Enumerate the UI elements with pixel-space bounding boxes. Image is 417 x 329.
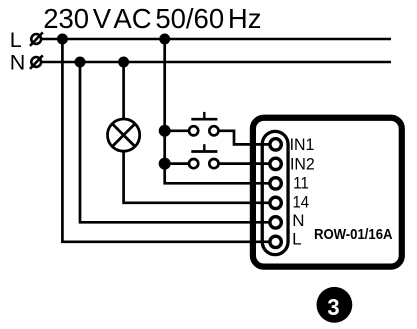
wire L rail	[41, 38, 391, 41]
svg-text:3: 3	[327, 294, 339, 320]
wire L to module terminal L	[62, 39, 275, 242]
svg-text:L: L	[292, 229, 301, 248]
terminal 14	[270, 197, 281, 208]
module ROW-01/16A body	[253, 118, 402, 267]
module terminal strip	[262, 131, 288, 254]
svg-text:11: 11	[293, 173, 309, 192]
wire N to module terminal N	[80, 62, 276, 222]
wire to button S2	[165, 162, 189, 165]
svg-text:L: L	[10, 28, 22, 52]
wire lamp to module terminal 14	[124, 151, 276, 203]
junction on L rail at x=164	[159, 34, 170, 45]
step number 3 badge	[317, 287, 353, 323]
terminal N	[270, 217, 281, 228]
push button S2	[189, 144, 218, 168]
junction button S2 feed	[159, 158, 171, 170]
wire to button S1	[165, 129, 189, 132]
wire N rail	[41, 61, 391, 64]
lamp E1	[108, 119, 140, 151]
wire button S1 to module terminal IN1	[219, 131, 276, 145]
terminal symbol N	[30, 55, 43, 69]
svg-text:IN1: IN1	[290, 135, 315, 154]
terminal L	[270, 236, 281, 247]
junction button S1 feed	[159, 125, 171, 137]
terminal symbol L	[30, 32, 43, 46]
wire L to buttons and module terminal 11	[165, 39, 276, 183]
svg-text:N: N	[10, 51, 26, 75]
terminal IN2	[270, 158, 281, 169]
svg-text:IN2: IN2	[290, 154, 315, 173]
terminal IN1	[270, 139, 281, 150]
push button S1	[189, 112, 218, 136]
junction on L rail at x=62	[57, 34, 68, 45]
wire button S2 to module terminal IN2	[219, 162, 276, 165]
svg-text:ROW-01/16A: ROW-01/16A	[314, 227, 393, 243]
svg-text:14: 14	[293, 192, 310, 211]
wire N to lamp	[122, 62, 125, 120]
svg-text:N: N	[292, 211, 304, 230]
terminal 11	[270, 178, 281, 189]
junction on N rail at x=80	[75, 57, 86, 68]
svg-text:230 V AC 50/60 Hz: 230 V AC 50/60 Hz	[43, 3, 261, 34]
junction on N rail at x=123	[118, 57, 129, 68]
